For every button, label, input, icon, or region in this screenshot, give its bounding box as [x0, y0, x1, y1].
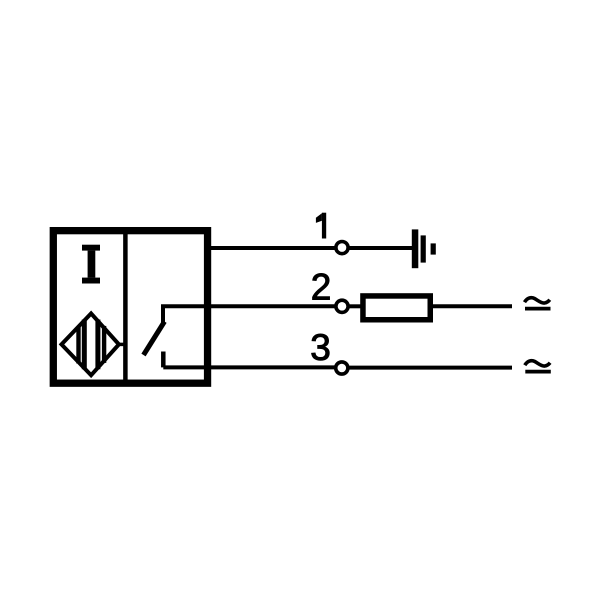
svg-text:3: 3 — [310, 327, 331, 368]
svg-text:2: 2 — [311, 267, 332, 308]
